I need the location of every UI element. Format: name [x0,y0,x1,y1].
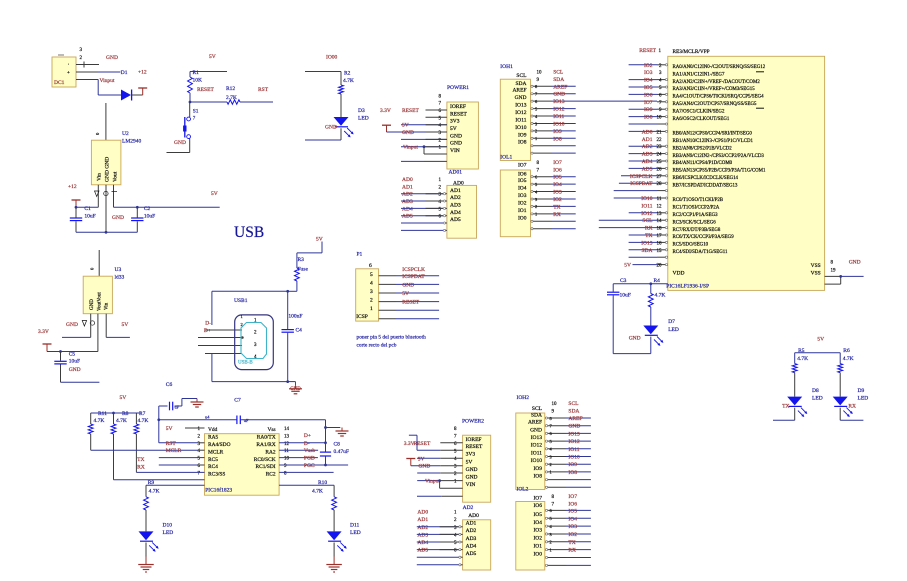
pin stub [657,101,666,103]
capacitor C8 [320,451,331,453]
pin stub [426,124,447,126]
svg-text:RB6/ICSPCLK/ICDCLK/SEG14: RB6/ICSPCLK/ICDCLK/SEG14 [673,176,739,181]
svg-text:IO8: IO8 [553,136,562,142]
svg-text:RC5/SDO/SEG10: RC5/SDO/SEG10 [673,243,709,248]
capacitor C3 [607,291,619,293]
pin stub [532,228,552,230]
svg-text:IO0: IO0 [533,551,542,557]
wire [417,449,440,451]
wire [158,406,160,443]
wire [396,309,439,311]
pin mark O [104,191,108,195]
svg-text:IO4: IO4 [568,516,577,522]
svg-text:IO9: IO9 [644,107,653,113]
wire [629,241,657,243]
pin [545,517,547,519]
svg-text:GND: GND [402,130,414,136]
wire usb top [212,290,288,292]
wire [97,80,99,96]
svg-text:RB0/AN12/CPS0/CCP4/SRI/INT/SEG: RB0/AN12/CPS0/CCP4/SRI/INT/SEG0 [673,132,753,137]
pin stub [197,442,205,444]
wire Vusb [279,449,318,451]
svg-text:RB3/AN9/C12IN2-/CPS3/CCP2/P2A/: RB3/AN9/C12IN2-/CPS3/CCP2/P2A/VLCD3 [673,154,765,159]
svg-text:C6: C6 [166,382,173,388]
svg-text:GND: GND [568,424,580,430]
svg-text:13: 13 [284,434,290,439]
svg-text:Vinput: Vinput [100,78,115,84]
wire [552,228,576,230]
pin [665,264,667,266]
svg-text:10uF: 10uF [84,214,95,220]
pin [531,176,533,178]
IC PIC16LF1936 [668,56,825,290]
wire [629,145,657,147]
svg-text:IO00: IO00 [326,55,338,61]
ground [295,385,297,389]
svg-text:C3: C3 [620,278,627,284]
pin stub [426,215,444,217]
wire [839,408,841,421]
pin [665,123,667,125]
svg-text:IO5: IO5 [568,508,577,514]
svg-text:D11: D11 [350,523,360,529]
junction [59,350,62,353]
wire [552,137,576,139]
svg-text:IO4: IO4 [553,182,562,188]
svg-text:4.7K: 4.7K [843,356,854,362]
pin [459,556,461,558]
pin mark O [90,321,94,325]
svg-text:LED: LED [668,327,679,333]
dash mark [756,107,764,109]
svg-text:5V: 5V [402,291,409,297]
svg-text:2: 2 [241,322,243,327]
wire [629,64,657,66]
pin [545,471,547,473]
pin mark A [95,191,100,197]
wire [189,139,191,153]
svg-text:1: 1 [550,547,552,552]
wire [159,419,237,421]
svg-text:1: 1 [535,212,537,217]
junction [423,145,426,148]
svg-text:AD2: AD2 [466,528,477,534]
pin [665,234,667,236]
pin [531,137,533,139]
wire [211,291,213,325]
pin mark tick [112,191,118,193]
wire [105,103,107,140]
regulator U2 [91,140,121,185]
pin [531,190,533,192]
pin stub [546,517,566,519]
svg-text:4.7K: 4.7K [312,488,323,494]
pin [459,541,461,543]
ground [145,557,147,565]
connector POWER1 [447,102,479,169]
svg-text:SCL: SCL [568,401,579,407]
svg-text:IO8: IO8 [568,470,577,476]
svg-text:5V: 5V [211,191,218,197]
wire MCLR [91,449,197,451]
svg-text:AD1: AD1 [642,137,653,143]
svg-text:D-: D- [205,321,211,327]
wire [60,352,62,361]
wire [325,456,327,465]
wire [650,337,652,354]
svg-text:RC5: RC5 [208,457,218,463]
wire [599,227,657,229]
svg-text:IO3: IO3 [568,524,577,530]
svg-text:4.7K: 4.7K [149,488,160,494]
svg-text:11: 11 [657,197,662,202]
svg-text:RA5/AN4/C2OUT/CPS7/SRNQ/SS/SEG: RA5/AN4/C2OUT/CPS7/SRNQ/SS/SEG5 [673,102,758,107]
wire [795,352,841,354]
svg-text:corte recto del pcb: corte recto del pcb [357,343,397,349]
svg-text:18: 18 [657,227,663,232]
pin stub [657,160,666,162]
svg-text:17: 17 [657,234,663,239]
wire [136,207,138,217]
pin [665,241,667,243]
junction [324,464,327,467]
wire [417,556,459,558]
pin [665,116,667,118]
wire [305,71,341,73]
wire [424,153,447,155]
svg-text:IO12: IO12 [568,439,580,445]
svg-text:RB5/AN13/CPS5/P2B/CCP3/P3A/T1G: RB5/AN13/CPS5/P2B/CCP3/P3A/T1G/COM1 [673,169,767,174]
svg-text:IO9: IO9 [553,129,562,135]
pin [665,79,667,81]
svg-text:IO7: IO7 [553,160,562,166]
wire [566,549,591,551]
pin [545,533,547,535]
svg-text:RC4/SDI/SDA/T1G/SEG11: RC4/SDI/SDA/T1G/SEG11 [673,250,729,255]
svg-text:RC1/T1OSI/CCP2/P2A: RC1/T1OSI/CCP2/P2A [673,206,720,211]
svg-text:4: 4 [370,280,373,286]
wire Vinput [401,146,447,148]
svg-text:IO2: IO2 [553,197,562,203]
svg-text:RC3/SCK/SCL/SEG6: RC3/SCK/SCL/SEG6 [673,220,717,225]
pin [545,448,547,450]
pin stub [205,329,242,331]
svg-text:5V: 5V [450,126,457,132]
svg-text:RX: RX [568,548,576,554]
wire [552,213,576,215]
svg-text:RESET: RESET [402,300,419,306]
wire [566,486,591,488]
svg-text:20: 20 [657,264,663,269]
power bar 3.3V [43,343,52,345]
svg-text:RA0/TX: RA0/TX [257,435,276,441]
wire [566,425,591,427]
pin stub [546,564,566,566]
resistor R9 [144,497,149,510]
resistor R7 [134,424,139,434]
pin stub [426,109,447,111]
pin [665,86,667,88]
svg-text:AD4: AD4 [642,159,653,165]
wire [75,221,77,232]
IC PIC16f1823 [205,434,280,496]
svg-text:ICSPCLK: ICSPCLK [630,174,653,180]
pin [665,108,667,110]
diode D1 [121,90,131,101]
pin [545,541,547,543]
junction [286,380,289,383]
pin DC1.3 [76,64,99,66]
svg-text:IO5: IO5 [553,175,562,181]
junction [75,206,78,209]
svg-text:TX: TX [782,404,789,410]
wire [614,190,657,192]
wire RST [159,442,197,444]
svg-text:16: 16 [657,241,663,246]
svg-text:5V: 5V [402,123,409,129]
pin [665,160,667,162]
wire [552,176,576,178]
svg-text:TX: TX [568,540,575,546]
svg-text:27: 27 [657,175,663,180]
svg-text:IO6: IO6 [568,501,577,507]
pin [443,215,445,217]
connector USB1 [235,315,274,370]
pin [531,205,533,207]
capacitor C1 [70,217,82,219]
junction [189,101,192,104]
wire [621,175,657,177]
pin [443,200,445,202]
svg-text:IO3: IO3 [533,528,542,534]
svg-text:Vinput: Vinput [403,145,418,151]
svg-text:RST: RST [258,87,269,93]
wire [566,471,591,473]
svg-text:TX: TX [553,204,560,210]
svg-text:IO4: IO4 [644,78,653,84]
svg-text:R5: R5 [798,348,805,354]
LED D11 [327,531,342,540]
svg-text:5V: 5V [166,426,173,432]
pin [665,249,667,251]
wire [566,564,591,566]
svg-text:10K: 10K [193,78,203,84]
pin [665,153,667,155]
pin stub [657,197,666,199]
svg-text:21: 21 [657,130,663,135]
pin stub [546,471,566,473]
connector IOL1 [500,170,530,237]
wire [566,479,591,481]
wire [552,198,576,200]
wire [175,405,182,407]
pin stub [197,464,205,466]
svg-text:GND: GND [66,322,78,328]
svg-text:AD0: AD0 [468,513,479,519]
svg-text:RC2: RC2 [266,472,276,478]
svg-text:24: 24 [657,153,663,158]
svg-text:TX: TX [645,233,652,239]
wire [629,256,657,258]
resistor R8 [111,424,116,434]
pin U3 Vout [97,314,99,352]
svg-text:SDA: SDA [641,248,652,254]
wire [650,307,652,326]
wire [401,193,443,195]
svg-text:RA4/SDO: RA4/SDO [208,442,231,448]
svg-text:AD1: AD1 [450,188,461,194]
wire [136,221,138,232]
pin stub [379,283,396,285]
pin stub [379,318,396,320]
pin stub [657,241,666,243]
svg-text:ICSPDAT: ICSPDAT [402,274,425,280]
pin stub [379,292,396,294]
pin stub [198,337,242,339]
svg-text:RESET: RESET [402,108,419,114]
svg-text:GND: GND [450,141,462,147]
svg-text:IO13: IO13 [531,435,543,441]
svg-text:IOL2: IOL2 [517,487,529,493]
wire [841,275,864,277]
wire [135,434,137,472]
svg-text:D-: D- [304,441,310,447]
capacitor C7 [236,416,238,425]
svg-text:IO7: IO7 [518,163,527,169]
pin stub [546,479,566,481]
svg-text:IO12: IO12 [641,211,653,217]
pin [531,152,533,154]
svg-text:2: 2 [535,129,537,134]
wire [181,399,183,407]
pin [531,130,533,132]
svg-text:POWER2: POWER2 [462,419,484,425]
wire [566,432,591,434]
pin stub [657,93,666,95]
pin U3 Vin [105,314,107,338]
pin [665,175,667,177]
resistor R12 [227,100,240,104]
wire [159,405,168,407]
svg-text:USB1: USB1 [234,298,248,304]
svg-text:Vusb: Vusb [304,448,316,454]
svg-text:10: 10 [552,402,558,407]
svg-text:Vin: Vin [104,302,109,310]
svg-text:AD2: AD2 [417,525,428,531]
pin stub [657,256,666,258]
wire [417,533,459,535]
pin [531,145,533,147]
pin [531,93,533,95]
pin stub [532,108,552,110]
pin stub [657,234,666,236]
LED D8 [787,397,802,406]
wire [189,102,191,117]
svg-text:R9: R9 [148,480,155,486]
wire [401,200,443,202]
pin stub [657,227,666,229]
svg-text:R2: R2 [344,71,351,77]
svg-text:AD3: AD3 [417,532,428,538]
wire [629,212,657,214]
pin stub [440,465,462,467]
svg-text:D1: D1 [121,70,128,76]
pin stub [657,190,666,192]
svg-text:·: · [68,62,70,68]
ground [196,399,198,403]
wire [401,215,443,217]
pin stub [198,345,242,347]
pin stub [546,417,566,419]
pin [531,115,533,117]
svg-text:VDD: VDD [673,271,685,277]
wire [75,207,77,217]
svg-text:AD4: AD4 [466,543,477,549]
wire [552,130,576,132]
svg-text:12: 12 [657,204,663,209]
pin stub [197,449,205,451]
svg-text:AD0: AD0 [642,129,653,135]
resistor R5 [792,364,797,373]
wire [114,479,205,481]
wire [629,86,657,88]
svg-text:poner pin 5 del puerto bluetoo: poner pin 5 del puerto bluetooth [357,335,427,341]
wire [396,318,439,320]
wire [629,160,657,162]
pin [531,107,533,109]
wire [396,301,439,303]
pin stub [657,153,666,155]
svg-text:IO13: IO13 [641,240,653,246]
svg-text:AD5: AD5 [450,217,461,223]
wire [552,93,576,95]
pin [545,486,547,488]
pin [545,509,547,511]
svg-text:PGC: PGC [304,463,315,469]
svg-text:C1: C1 [84,206,91,212]
wire IO13 to PIC [552,100,657,102]
pin stub [657,167,666,169]
pin stub [657,123,666,125]
svg-text:RA1/AN1/C12IN1-/SEG7: RA1/AN1/C12IN1-/SEG7 [673,72,725,77]
wire [839,353,841,364]
junction [324,426,327,429]
svg-text:ld33: ld33 [115,275,125,281]
wire [326,427,341,429]
pin [531,183,533,185]
svg-text:5V: 5V [418,456,425,462]
svg-text:AD5: AD5 [402,214,413,220]
junction [324,441,327,444]
svg-text:3V3: 3V3 [450,119,460,125]
capacitor C6 [169,402,171,411]
wire [552,152,576,154]
svg-text:RA6/OSC2/CLKOUT/SEG1: RA6/OSC2/CLKOUT/SEG1 [673,117,730,122]
wire PGD [279,457,318,459]
wire [47,351,98,353]
wire [190,101,227,103]
svg-text:IO8: IO8 [533,474,542,480]
pin stub [657,130,666,132]
svg-text:SDA: SDA [531,412,542,418]
svg-text:3V3: 3V3 [466,452,476,458]
pin [665,93,667,95]
pin stub [546,541,566,543]
svg-text:23: 23 [657,145,663,150]
svg-text:4.7K: 4.7K [343,78,354,84]
pin stub [532,85,552,87]
svg-text:IO11: IO11 [531,450,542,456]
